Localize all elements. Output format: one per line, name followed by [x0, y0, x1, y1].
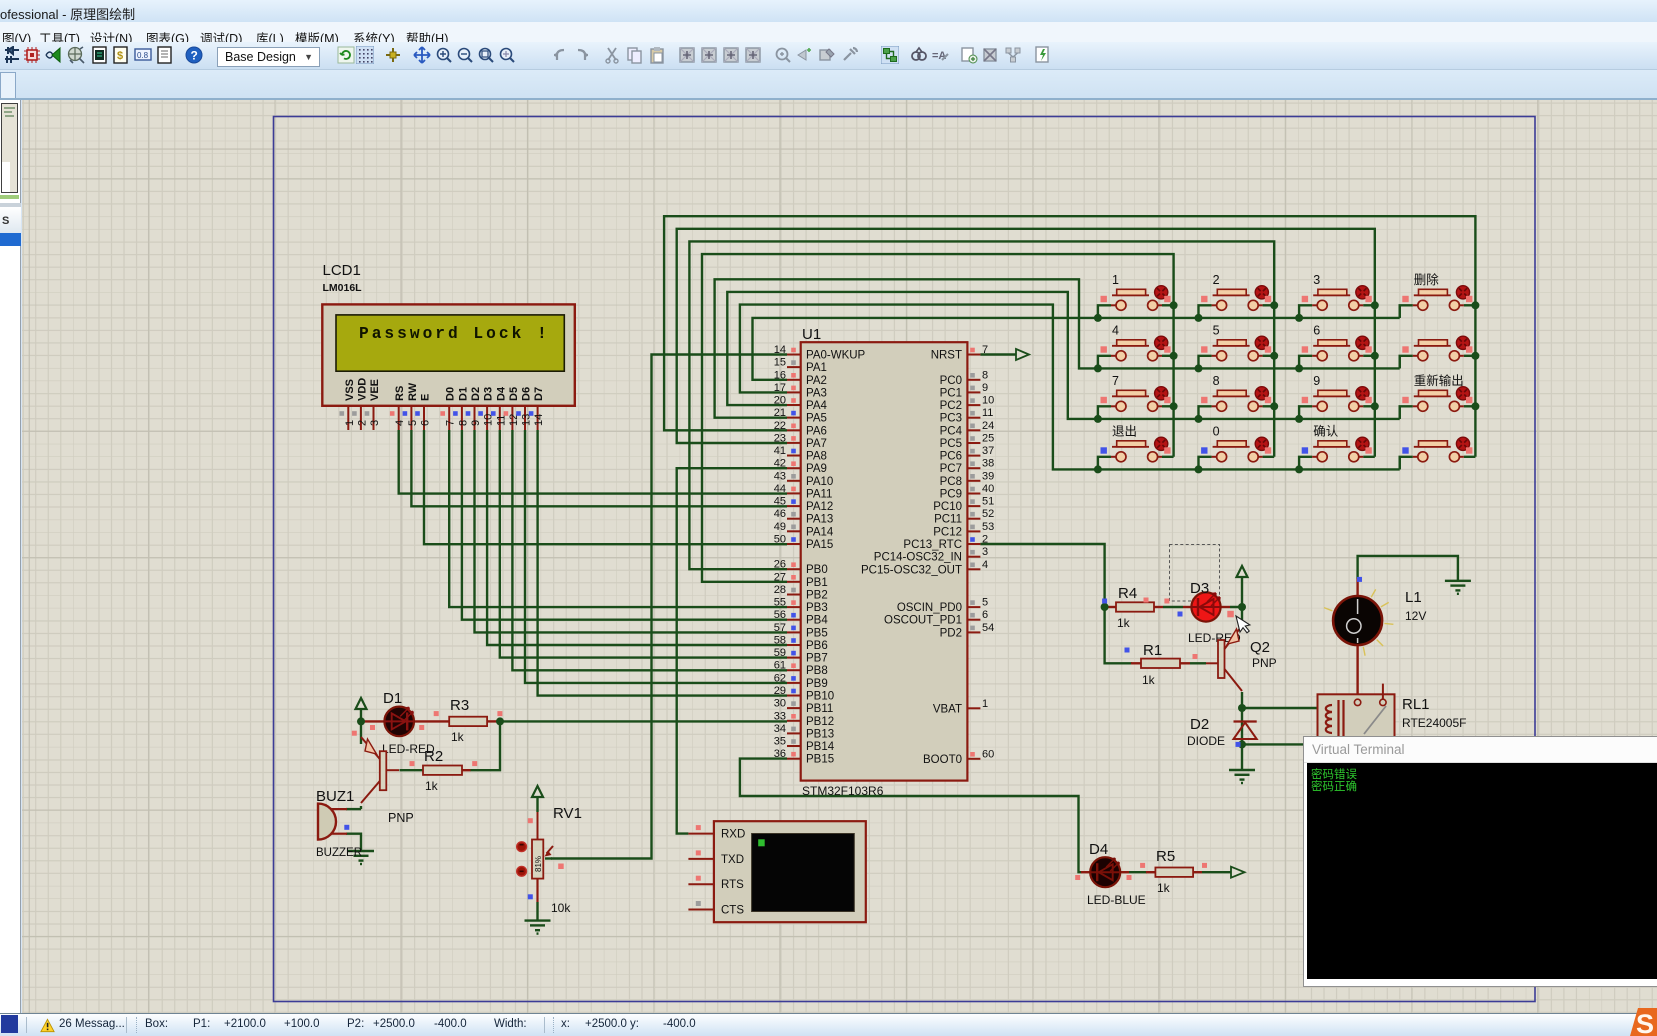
- toolbar icon block op: [746, 48, 760, 62]
- buzzer BUZ1: [316, 788, 362, 859]
- wire collector node to relay coil: [1242, 707, 1318, 709]
- wire Q1 collector wire: [360, 806, 362, 809]
- wire LCD RW to PA12: [411, 430, 787, 506]
- U1 pin 27 PB1: [774, 571, 828, 589]
- U1 pin 45 PA12: [774, 496, 834, 513]
- U1 pin 3 PC14-OSC32_IN: [874, 546, 988, 564]
- push button button row 4 col 2: [1199, 424, 1275, 469]
- wire lamp top pin: [1356, 578, 1358, 596]
- junction keypad row: [1295, 364, 1303, 372]
- wire R4 right stub: [1154, 606, 1163, 608]
- wire R1 left stub: [1131, 662, 1141, 664]
- wire LCD D3 to PB6: [487, 430, 787, 645]
- svg-text:?: ?: [191, 49, 198, 63]
- U1 pin 62 PB9: [774, 672, 828, 690]
- wire D2 node to relay coil return: [1242, 743, 1306, 745]
- wire Q2 collector to D2 node: [1241, 692, 1243, 744]
- U1 pin 17 PA3: [774, 382, 827, 400]
- push button button row 3 col 1: [1098, 374, 1174, 419]
- mouse cursor: [1236, 613, 1252, 634]
- diode D2: [1187, 716, 1257, 748]
- microcontroller U1 STM32F103R6: [801, 326, 968, 798]
- LED D1 LED-RED (off): [382, 690, 435, 756]
- junction keypad row: [1195, 314, 1203, 322]
- wire R1 to Q2 base: [1190, 662, 1206, 664]
- wire D2 node to ground: [1241, 744, 1243, 770]
- terminal pin TXD: [688, 850, 744, 866]
- U1 pin 59 PB7: [774, 647, 828, 665]
- wire D4 left stub: [1081, 871, 1091, 873]
- toolbar icon netlist: [881, 46, 899, 64]
- wire PA9 to terminal RXD: [677, 468, 787, 833]
- wire LCD D4 to PB7: [500, 430, 787, 658]
- sheet border: [274, 117, 1536, 1002]
- lamp L1 12V: [1324, 589, 1426, 656]
- terminal pin CTS: [688, 901, 744, 917]
- push button button row 3 col 2: [1199, 374, 1275, 419]
- U1 pin 39 PC8: [940, 470, 995, 488]
- svg-text:=A: =A: [932, 50, 946, 62]
- toolbar icon text doc: [158, 47, 171, 63]
- toolbar icon block op: [702, 48, 716, 62]
- wire R3 to PB12: [500, 720, 787, 722]
- toolbar icon refresh: [338, 47, 354, 63]
- power terminal VCC above RV1: [532, 786, 543, 797]
- U1 pin 26 PB0: [774, 559, 828, 577]
- U1 pin 20 PA4: [774, 395, 828, 413]
- resistor R5 1k: [1155, 848, 1193, 895]
- wire LCD D1 to PB4: [462, 430, 787, 620]
- junction node R4/R1: [1101, 603, 1109, 611]
- toolbar icon zoom: [480, 49, 491, 60]
- toolbar icon new sheet: [962, 48, 973, 61]
- U1 pin 9 PC1: [940, 382, 989, 400]
- junction keypad row: [1195, 465, 1203, 473]
- junction keypad column: [1371, 352, 1379, 360]
- junction keypad row: [1295, 314, 1303, 322]
- junction keypad column: [1170, 352, 1178, 360]
- junction node D3/Q2: [1238, 603, 1246, 611]
- toolbar icon search: [912, 52, 920, 60]
- wire D4 right stub: [1120, 871, 1129, 873]
- U1 pin 49 PA14: [774, 521, 834, 539]
- toolbar icon help: [186, 47, 202, 63]
- U1 pin 25 PC5: [940, 433, 995, 451]
- wire LCD D2 to PB5: [475, 430, 788, 632]
- wire PA6 to keypad column 4: [664, 216, 1475, 457]
- junction keypad column: [1270, 402, 1278, 410]
- toolbar icon paste: [651, 49, 663, 63]
- toolbar icon zoom sel: [777, 49, 788, 60]
- U1 pin 60 BOOT0: [923, 748, 994, 766]
- junction keypad row: [1195, 415, 1203, 423]
- U1 pin 50 PA15: [774, 534, 834, 552]
- junction keypad row: [1295, 465, 1303, 473]
- transistor Q1 PNP buzzer driver: [361, 737, 414, 825]
- junction keypad row: [1295, 415, 1303, 423]
- terminal output arrow: [1231, 867, 1245, 878]
- wire D3 right stub: [1220, 606, 1231, 608]
- U1 pin 52 PC11: [934, 508, 994, 526]
- toolbar icon zoom: [438, 49, 449, 60]
- push button button row 2 col 3: [1299, 323, 1375, 368]
- wire PB15 to D4: [740, 759, 1082, 873]
- U1 pin 41 PA8: [774, 445, 827, 463]
- push button button row 3 col 3: [1299, 374, 1375, 419]
- LCD1 pin 11 D4: [491, 386, 507, 430]
- U1 pin 38 PC7: [940, 458, 995, 476]
- U1 pin 36 PB15: [774, 748, 834, 766]
- U1 pin 5 OSCIN_PD0: [897, 597, 988, 615]
- LCD1 pin 8 D1: [453, 387, 469, 430]
- U1 pin 54 PD2: [940, 622, 995, 640]
- U1 pin 23 PA7: [774, 432, 827, 450]
- LCD1 pin 1 VSS: [340, 379, 356, 430]
- junction node R3/R2: [496, 717, 504, 725]
- U1 pin 22 PA6: [774, 420, 827, 438]
- resistor R1 1k: [1141, 642, 1180, 687]
- wire node R4 left: [1107, 606, 1116, 608]
- wire lamp to ground: [1358, 556, 1458, 581]
- U1 pin 33 PB12: [774, 710, 834, 728]
- junction keypad column: [1270, 352, 1278, 360]
- U1 pin 57 PB5: [774, 622, 828, 640]
- toolbar icon electrical check: [1036, 47, 1048, 62]
- toolbar icon remove: [984, 49, 996, 61]
- wire keypad row 3 riser: [1398, 406, 1400, 419]
- toolbar icon block op: [724, 48, 738, 62]
- terminal pin RTS: [688, 876, 744, 892]
- wire R3 node to R2: [470, 721, 500, 770]
- wire R2 to Q1 base: [400, 769, 424, 771]
- junction keypad row: [1195, 364, 1203, 372]
- wire buzzer pin 1: [346, 808, 361, 810]
- toolbar icon pan: [414, 47, 430, 63]
- selection box (dashed): [1170, 545, 1220, 602]
- toolbar icon cut: [608, 48, 616, 60]
- LCD1 pin 5 RW: [403, 382, 419, 430]
- junction keypad row: [1094, 465, 1102, 473]
- wire D4 to R5: [1129, 871, 1147, 873]
- wire buzzer pin 2 to ground: [346, 834, 361, 851]
- ground lamp return: [1445, 581, 1471, 594]
- U1 pin 53 PC12: [933, 521, 994, 539]
- push button button row 2 col 4: [1400, 336, 1476, 368]
- wire power to D3 node: [1241, 577, 1243, 607]
- toolbar icon navigate: [46, 52, 53, 58]
- U1 pin 10 PC2: [940, 395, 995, 413]
- junction keypad column: [1471, 352, 1479, 360]
- LCD1 pin 7 D0: [440, 387, 456, 430]
- toolbar icon design doc: [93, 47, 106, 63]
- wire PA3 to keypad row 4: [740, 305, 1400, 470]
- toolbar icon bom: [114, 47, 127, 63]
- wire LCD RS to PA11: [399, 430, 787, 494]
- transistor Q2 PNP: [1206, 626, 1277, 692]
- toolbar icon copy: [628, 48, 637, 60]
- LCD1 pin 4 RS: [390, 386, 406, 430]
- wire R3 right: [487, 720, 500, 722]
- toolbar icon web: [69, 48, 82, 61]
- wire PA4 to keypad row 3: [727, 292, 1399, 419]
- U1 pin 55 PB3: [774, 597, 828, 615]
- junction keypad column: [1270, 301, 1278, 309]
- wire power to RV1: [536, 797, 538, 812]
- wire node to D1: [361, 720, 385, 722]
- toolbar icon meter: [135, 49, 151, 60]
- wire PA5 to keypad row 2: [715, 279, 1400, 417]
- ground below RV1: [525, 921, 551, 934]
- wire PB1 to keypad column 1: [702, 254, 1174, 582]
- toolbar icon hierarchy: [1006, 48, 1011, 53]
- wire RV1 to ground: [536, 902, 538, 921]
- junction keypad column: [1371, 301, 1379, 309]
- toolbar icon grid toggle: [356, 46, 374, 64]
- relay RL1 RTE24005F: [1318, 684, 1467, 773]
- virtual terminal instrument component: [688, 821, 865, 922]
- wire keypad row 1 riser: [1398, 305, 1400, 318]
- junction keypad column: [1471, 301, 1479, 309]
- wire LCD D0 to PB3: [449, 430, 787, 607]
- power terminal VCC above Q2: [1237, 566, 1248, 577]
- wire R4 to D3: [1163, 606, 1183, 608]
- U1 pin 37 PC6: [940, 445, 995, 463]
- LCD display LCD1 LM016L: [316, 262, 1479, 922]
- push button button row 1 col 1: [1098, 273, 1174, 318]
- U1 pin 35 PB14: [774, 736, 835, 754]
- junction keypad column: [1170, 402, 1178, 410]
- LED D3 LED-RED (on): [1188, 580, 1241, 645]
- toolbar icon origin: [386, 48, 400, 62]
- wire keypad row 2 riser: [1398, 356, 1400, 369]
- U1 pin 16 PA2: [774, 369, 827, 387]
- toolbar icon tool: [844, 48, 857, 60]
- LCD1 pin 2 VDD: [352, 378, 368, 430]
- U1 pin 42 PA9: [774, 458, 827, 476]
- push button button row 1 col 2: [1199, 273, 1275, 318]
- U1 pin 51 PC10: [933, 496, 994, 513]
- junction keypad row: [1094, 415, 1102, 423]
- wire PA7 to keypad column 3: [677, 229, 1375, 457]
- U1 pin 29 PB10: [774, 685, 834, 703]
- junction node D2: [1238, 740, 1246, 748]
- U1 pin 21 PA5: [774, 407, 827, 425]
- U1 pin 24 PC4: [940, 420, 995, 438]
- wire LCD D7 to PB10: [538, 430, 787, 696]
- toolbar icon zoom: [501, 49, 512, 60]
- U1 pin 58 PB6: [774, 635, 828, 653]
- wire LCD D5 to PB8: [512, 430, 787, 670]
- wire D3 left stub: [1183, 606, 1193, 608]
- U1 pin 8 PC0: [940, 369, 989, 387]
- push button button row 1 col 3: [1299, 273, 1375, 318]
- toolbar icon chip: [27, 50, 37, 60]
- resistor R3 1k: [449, 697, 487, 744]
- junction keypad column: [1471, 402, 1479, 410]
- wire R5 left stub: [1146, 871, 1155, 873]
- U1 pin 11 PC3: [940, 407, 994, 425]
- wire R1 right stub: [1180, 662, 1190, 664]
- U1 pin 14 PA0-WKUP: [774, 344, 866, 362]
- wire D3 to Q2 emitter node: [1230, 607, 1242, 626]
- terminal pin RXD: [688, 825, 745, 841]
- wire PB0 to keypad column 2: [689, 241, 1274, 569]
- wire PC13 to R4/R1: [980, 544, 1132, 663]
- toolbar icon goto: [798, 50, 806, 60]
- power terminal VCC above D1: [356, 698, 367, 709]
- wire R5 to output terminal: [1202, 871, 1231, 873]
- LCD1 pin 12 D5: [504, 387, 520, 430]
- U1 pin 44 PA11: [774, 483, 833, 501]
- resistor R4 1k: [1116, 585, 1154, 630]
- U1 pin 7 NRST: [931, 344, 988, 362]
- toolbar icon undo: [554, 50, 564, 60]
- LCD1 pin 9 D2: [466, 387, 482, 430]
- U1 pin 4 PC15-OSC32_OUT: [861, 559, 988, 577]
- svg-text:0.8: 0.8: [137, 51, 149, 60]
- toolbar icon redo: [578, 50, 588, 60]
- U1 pin 43 PA10: [774, 470, 834, 488]
- wire R5 right stub: [1193, 871, 1202, 873]
- LED D4 LED-BLUE (off): [1087, 841, 1146, 907]
- U1 pin 46 PA13: [774, 508, 834, 526]
- junction node collector/relay: [1238, 704, 1246, 712]
- U1 pin 30 PB11: [774, 698, 834, 716]
- wire keypad row 4 riser: [1398, 457, 1400, 470]
- wire PA2 to keypad row 1: [753, 318, 1400, 380]
- wire LCD E to PA15: [424, 430, 787, 544]
- U1 pin 15 PA1: [774, 357, 827, 375]
- LCD1 pin 3 VEE: [365, 379, 381, 430]
- push button button row 2 col 2: [1199, 323, 1275, 368]
- U1 pin 1 VBAT: [933, 698, 988, 716]
- LCD1 pin 6 E: [415, 394, 431, 430]
- junction keypad column: [1170, 301, 1178, 309]
- wire relay contact to lamp: [1356, 645, 1358, 702]
- toolbar icon zoom: [459, 49, 470, 60]
- U1 pin 28 PB2: [774, 584, 828, 602]
- wire R2 right stub: [462, 769, 471, 771]
- junction keypad column: [1371, 402, 1379, 410]
- push button button row 4 col 3: [1299, 424, 1375, 469]
- push button button row 2 col 1: [1098, 323, 1174, 368]
- U1 pin 56 PB4: [774, 609, 829, 627]
- toolbar icon component mode: [5, 47, 19, 63]
- wire power to D1/Q1 node: [360, 709, 362, 744]
- junction keypad row: [1094, 364, 1102, 372]
- push button button row 3 col 4: [1400, 373, 1476, 419]
- U1 pin 34 PB13: [774, 723, 834, 741]
- LCD1 pin 13 D6: [516, 387, 532, 430]
- resistor R2 1k: [423, 748, 462, 793]
- ground below D2: [1229, 770, 1255, 783]
- push button button row 4 col 4: [1400, 437, 1476, 469]
- svg-text:S: S: [1636, 1009, 1654, 1036]
- U1 pin 6 OSCOUT_PD1: [884, 609, 988, 627]
- U1 pin 61 PB8: [774, 660, 828, 678]
- wire PA0 to RV1 wiper: [551, 355, 787, 859]
- ground below buzzer: [348, 851, 374, 864]
- LCD1 pin 14 D7: [529, 387, 545, 430]
- toolbar icon block op: [680, 48, 694, 62]
- push button button row 1 col 4: [1400, 272, 1476, 318]
- wire NRST to reset terminal: [980, 353, 1016, 355]
- svg-text:$: $: [117, 50, 123, 62]
- LCD1 pin 10 D3: [478, 387, 494, 430]
- wire D1 to R3: [414, 720, 450, 722]
- U1 pin 2 PC13_RTC: [903, 534, 988, 552]
- push button button row 4 col 1: [1098, 424, 1174, 469]
- junction keypad row: [1094, 314, 1102, 322]
- potentiometer RV1 10k: [517, 805, 582, 915]
- junction node D1/Q1: [357, 717, 365, 725]
- wire node R4 left wire: [1105, 606, 1108, 608]
- U1 pin 40 PC9: [940, 483, 995, 501]
- terminal NRST arrow: [1016, 349, 1029, 360]
- wire LCD D6 to PB9: [525, 430, 787, 683]
- toolbar icon edit chip: [820, 50, 830, 60]
